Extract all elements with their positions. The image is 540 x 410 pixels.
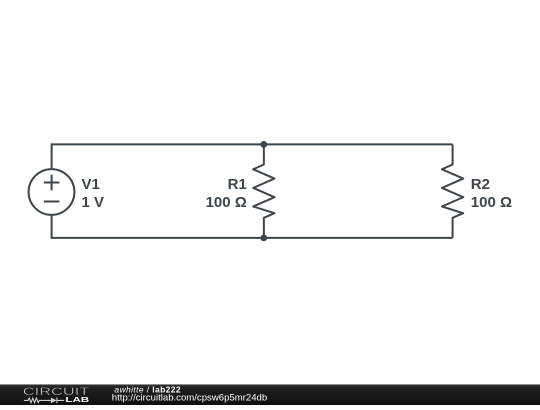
svg-text:LAB: LAB [65, 395, 89, 404]
svg-text:http://circuitlab.com/cpsw6p5m: http://circuitlab.com/cpsw6p5mr24db [112, 393, 268, 403]
svg-text:1 V: 1 V [82, 194, 105, 211]
svg-text:V1: V1 [82, 176, 100, 193]
svg-text:100 Ω: 100 Ω [471, 194, 512, 211]
svg-text:R1: R1 [228, 176, 247, 193]
svg-text:R2: R2 [471, 176, 490, 193]
svg-text:100 Ω: 100 Ω [206, 194, 247, 211]
